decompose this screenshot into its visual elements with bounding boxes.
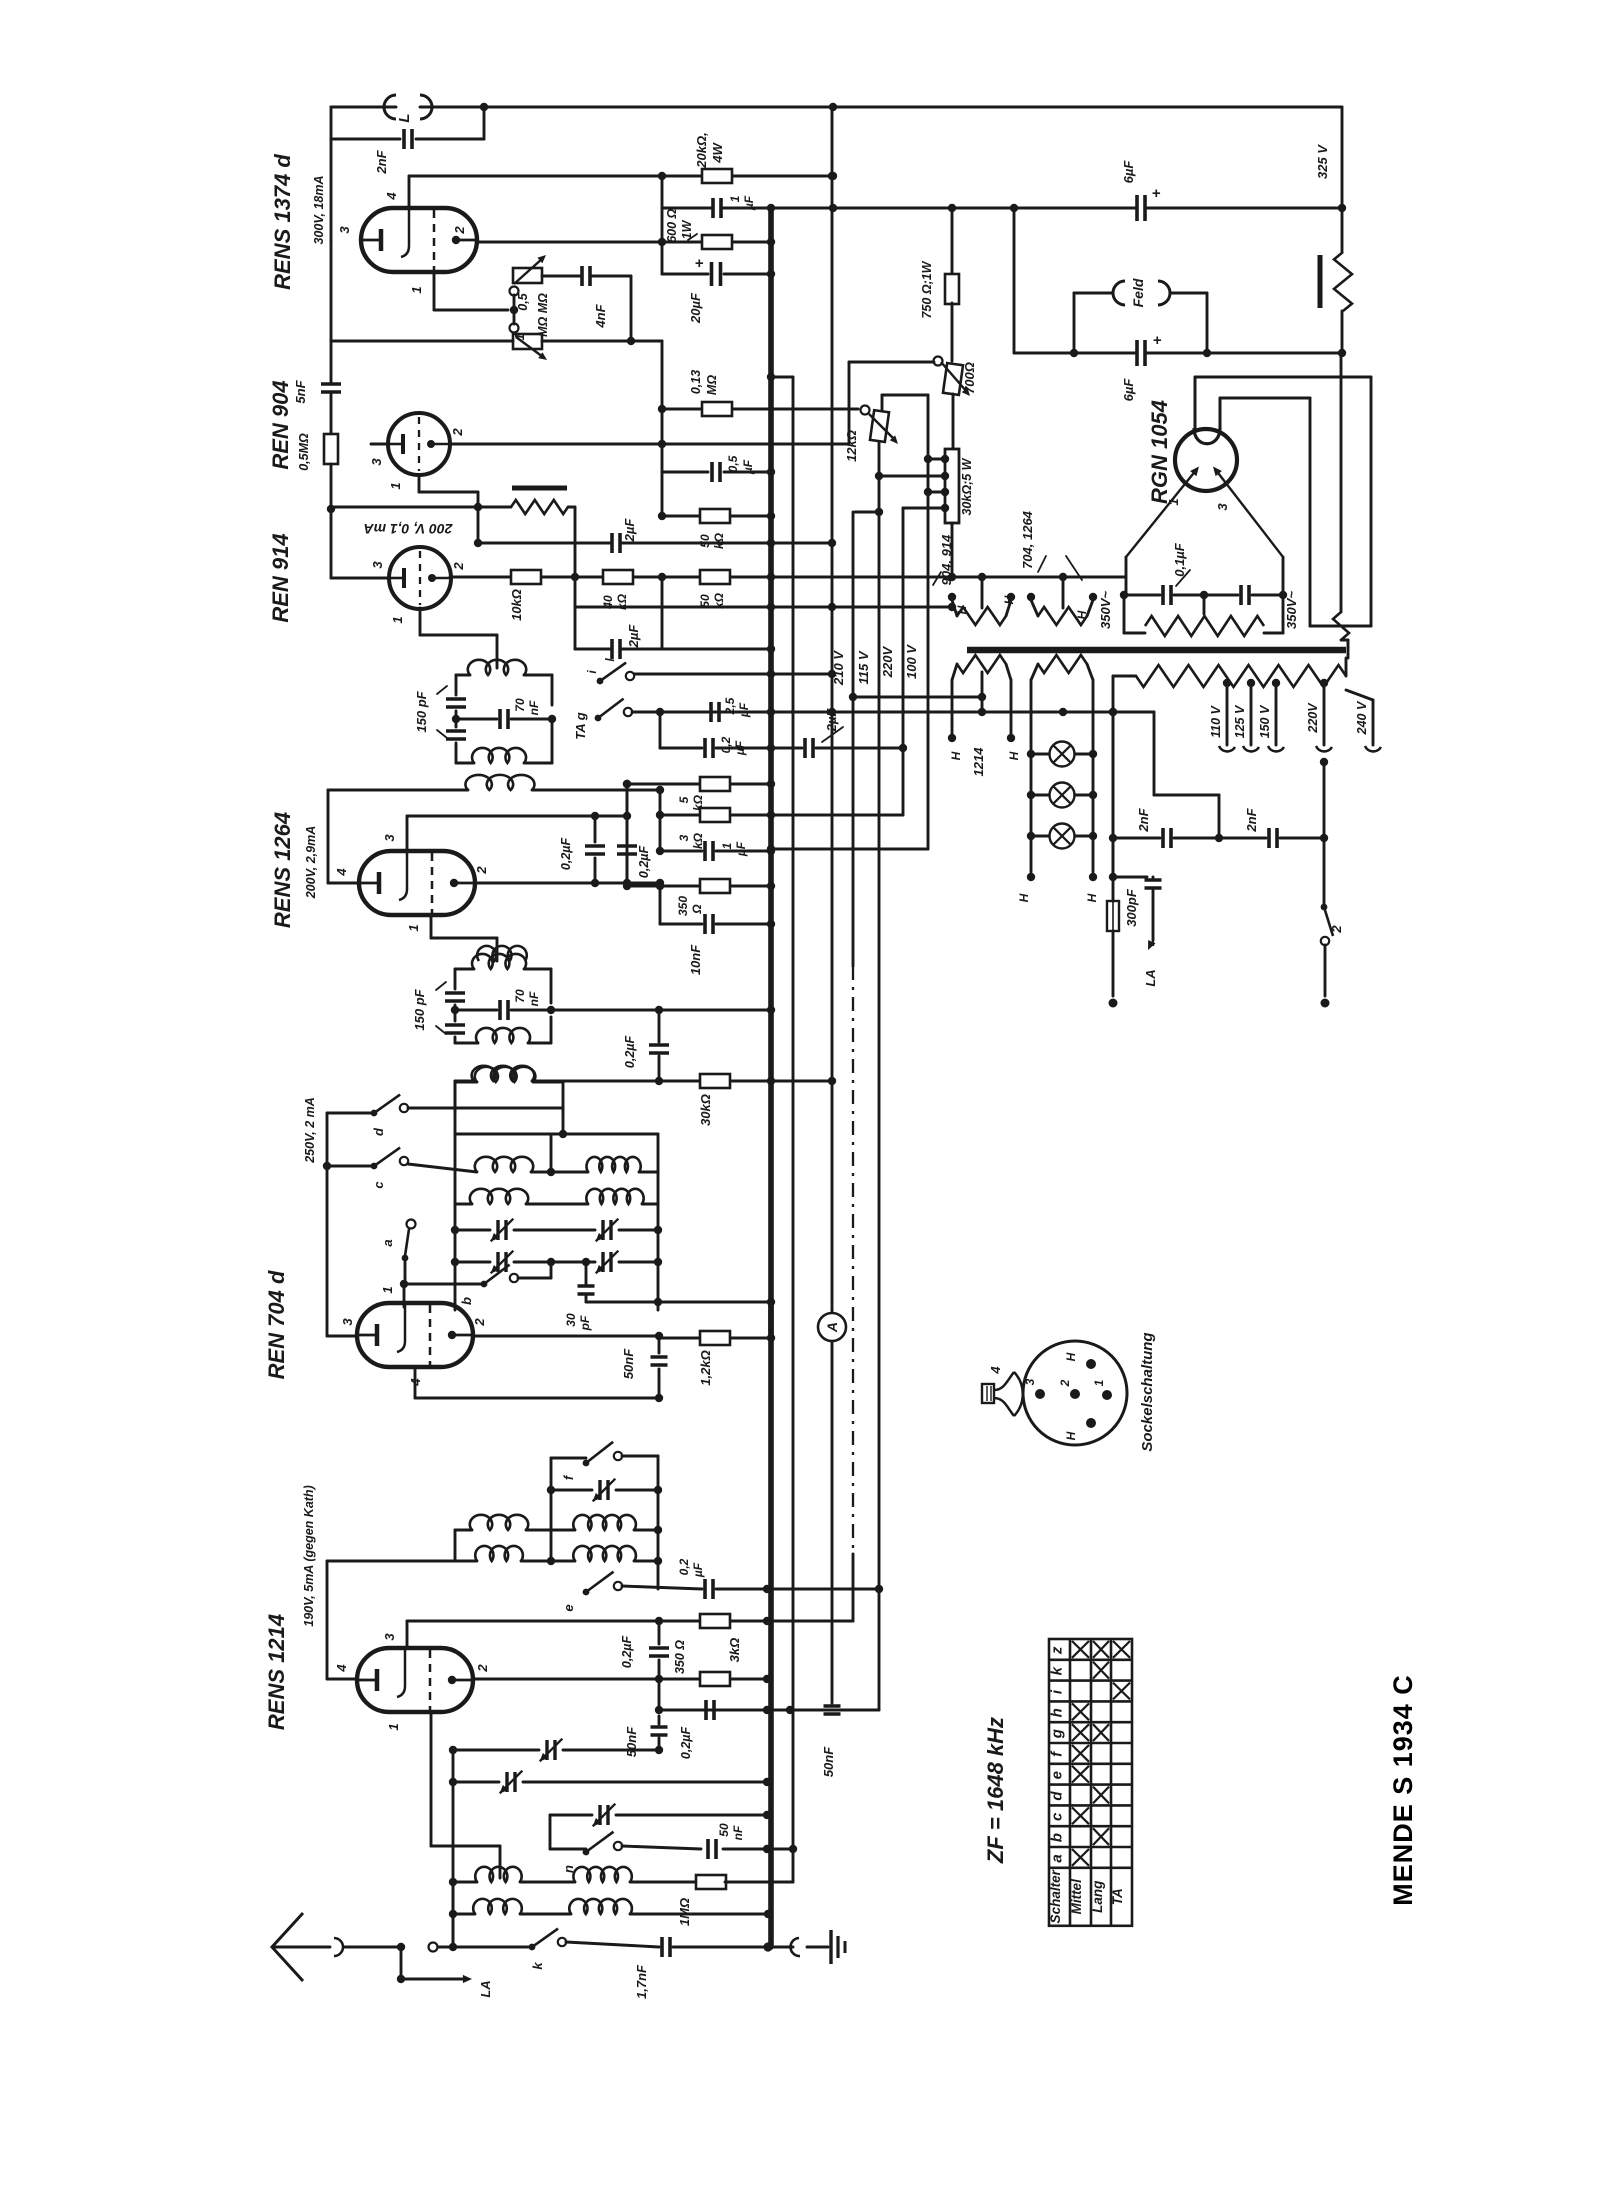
wire <box>731 1337 771 1340</box>
wire vertical x853 upper <box>852 512 855 966</box>
wire <box>330 464 333 578</box>
svg-text:750 Ω;1W: 750 Ω;1W <box>920 260 934 318</box>
wire <box>1153 712 1156 795</box>
svg-text:2: 2 <box>452 226 467 235</box>
wire pin3 <box>327 1335 357 1338</box>
wire <box>1346 690 1373 700</box>
wire <box>1092 680 1095 742</box>
wire <box>520 1881 575 1884</box>
capacitor 10nF <box>705 914 713 934</box>
wire <box>1220 397 1310 400</box>
svg-text:µF: µF <box>737 702 751 718</box>
junction <box>1320 834 1328 842</box>
junction <box>1027 750 1035 758</box>
junction <box>655 1706 663 1714</box>
table X mark g <box>1093 1724 1109 1741</box>
junction <box>658 512 666 520</box>
svg-text:RENS 1264: RENS 1264 <box>270 812 295 928</box>
socket pin 1 <box>1102 1390 1112 1400</box>
wire <box>658 1716 661 1724</box>
wire <box>658 1679 661 1710</box>
junction <box>767 539 775 547</box>
wire <box>528 1042 551 1045</box>
junction <box>948 603 956 611</box>
switch TA g <box>595 715 602 722</box>
svg-text:MΩ: MΩ <box>705 375 719 395</box>
junction <box>1059 573 1067 581</box>
leader <box>436 1026 446 1034</box>
capacitor 50nF (osc cathode) <box>651 1357 668 1365</box>
potentiometer 1 MOhm <box>513 334 542 349</box>
svg-text:1,7nF: 1,7nF <box>634 1964 649 1999</box>
wire primary left lead <box>1112 676 1115 877</box>
capacitor 4nF <box>582 266 590 286</box>
winding mains primary <box>1136 665 1346 687</box>
trimmer capacitor ant pad 2 <box>507 1772 515 1792</box>
wire TA line y712 <box>632 711 771 714</box>
wire 2uF line <box>478 542 611 545</box>
resistor grid leak with tap bar <box>511 500 568 514</box>
wire <box>514 1261 595 1264</box>
switch e <box>583 1589 590 1596</box>
wire top rail right <box>420 106 1342 109</box>
wire <box>1112 877 1115 901</box>
wire <box>658 1660 661 1679</box>
wire y1750 <box>453 1749 539 1752</box>
junction <box>1120 591 1128 599</box>
svg-text:0,1µF: 0,1µF <box>1172 542 1187 577</box>
svg-text:LA: LA <box>478 1980 493 1997</box>
capacitor 70nF (IF2) <box>500 1000 508 1020</box>
wire <box>630 1881 697 1884</box>
junction <box>623 780 631 788</box>
resistor 750 Ohm 1W <box>945 274 959 304</box>
svg-text:0,2µF: 0,2µF <box>623 1036 637 1069</box>
wire 4nF line <box>542 275 581 278</box>
tube RENS1264 body <box>359 851 475 915</box>
wire <box>848 362 851 444</box>
wire RENS1264 pin3 <box>406 816 409 851</box>
svg-text:350: 350 <box>676 896 690 916</box>
junction <box>449 1778 457 1786</box>
svg-text:4: 4 <box>334 1664 349 1673</box>
junction <box>875 472 883 480</box>
svg-text:H: H <box>1007 751 1021 760</box>
svg-text:2nF: 2nF <box>1136 807 1151 832</box>
capacitor 0.2uF <box>705 738 713 758</box>
junction <box>323 1162 331 1170</box>
svg-text:RGN 1054: RGN 1054 <box>1147 400 1172 504</box>
svg-text:REN 704 d: REN 704 d <box>264 1270 289 1379</box>
wire <box>1113 675 1136 678</box>
junction <box>767 573 775 581</box>
junction <box>656 811 664 819</box>
wire y1398 <box>415 1397 659 1400</box>
svg-text:125 V: 125 V <box>1233 704 1247 738</box>
junction <box>1109 834 1117 842</box>
junction <box>449 1910 457 1918</box>
table X mark f <box>1072 1745 1089 1762</box>
svg-text:b: b <box>459 1297 474 1305</box>
wire y1710 <box>659 1709 790 1712</box>
table X mark c <box>1072 1807 1089 1824</box>
wire <box>724 273 771 276</box>
svg-text:1,2kΩ: 1,2kΩ <box>698 1350 713 1385</box>
coil IF1 primary bottom <box>472 748 526 763</box>
wire <box>619 1261 658 1264</box>
junction <box>767 468 775 476</box>
wire <box>952 394 955 449</box>
tube REN904 body <box>388 413 450 475</box>
wire <box>731 885 771 888</box>
leader <box>933 572 941 585</box>
wire <box>1125 557 1128 595</box>
wire antenna lead <box>273 1946 330 1949</box>
svg-text:3: 3 <box>382 1633 397 1641</box>
wire 70nF line (IF2) <box>455 1009 497 1012</box>
svg-text:2: 2 <box>1329 925 1344 934</box>
wire <box>594 858 597 883</box>
svg-text:MΩ MΩ: MΩ MΩ <box>536 293 550 337</box>
junction <box>1338 349 1346 357</box>
svg-text:REN 904: REN 904 <box>268 380 293 469</box>
junction <box>655 1675 663 1683</box>
svg-text:3: 3 <box>337 226 352 234</box>
svg-text:2: 2 <box>472 1318 487 1327</box>
junction <box>655 1617 663 1625</box>
junction <box>571 573 579 581</box>
wire lamp right rail <box>1092 742 1095 836</box>
wire y1302 to bus <box>586 1301 771 1304</box>
junction <box>767 1334 775 1342</box>
resistor 3kOhm (RENS1264 screen) <box>700 808 730 822</box>
svg-text:3: 3 <box>1023 1378 1037 1385</box>
wire <box>594 816 597 842</box>
svg-text:70: 70 <box>513 989 527 1003</box>
svg-text:d: d <box>371 1127 386 1136</box>
svg-text:Mittel: Mittel <box>1069 1879 1084 1914</box>
svg-text:240 V: 240 V <box>1355 700 1369 735</box>
junction <box>767 847 775 855</box>
svg-text:1214: 1214 <box>971 747 986 777</box>
junction <box>547 1557 555 1565</box>
wire anode cap a <box>1194 377 1197 428</box>
wire primary right end <box>1345 658 1348 676</box>
junction <box>452 715 460 723</box>
wire tap4 <box>903 507 945 510</box>
svg-text:200V, 2,9mA: 200V, 2,9mA <box>304 826 318 900</box>
resistor 50kOhm (2) <box>700 509 730 523</box>
wire <box>455 1042 478 1045</box>
resistor 0.13 MOhm <box>702 402 732 416</box>
wire <box>1145 352 1342 355</box>
wire <box>673 1946 768 1949</box>
wire 10nF line <box>660 923 702 926</box>
wire <box>562 1082 565 1113</box>
wire heater branch y697 <box>853 696 982 699</box>
junction <box>582 1258 590 1266</box>
table X mark z <box>1093 1641 1109 1658</box>
junction <box>451 1258 459 1266</box>
winding lamps <box>1038 655 1087 673</box>
junction <box>767 373 775 381</box>
svg-text:1: 1 <box>406 924 421 931</box>
wire <box>626 858 629 883</box>
wire pin1 up <box>403 1284 406 1307</box>
svg-text:350V~: 350V~ <box>1098 591 1113 629</box>
svg-text:115 V: 115 V <box>856 650 871 684</box>
junction <box>655 1746 663 1754</box>
svg-text:h: h <box>1049 1708 1066 1717</box>
wire 0.1uF line <box>1124 594 1160 597</box>
wire RENS1214 anode y1679 <box>473 1678 699 1681</box>
wire <box>731 814 771 817</box>
wire 600ohm line <box>477 241 702 244</box>
junction <box>763 1942 772 1951</box>
contact a <box>407 1220 416 1229</box>
svg-text:RENS 1374 d: RENS 1374 d <box>270 154 295 290</box>
junction <box>828 1077 836 1085</box>
wire <box>401 1978 466 1981</box>
wire node 662 <box>661 341 664 472</box>
svg-text:Feld: Feld <box>1130 278 1146 307</box>
junction <box>764 1910 772 1918</box>
wire RENS1264 pin4 <box>328 882 359 885</box>
junction <box>654 1298 662 1306</box>
field coil Feld <box>1113 281 1125 305</box>
svg-text:70: 70 <box>513 698 527 712</box>
table X mark z <box>1113 1641 1130 1658</box>
wire tap 125V <box>1250 681 1253 745</box>
svg-text:TA: TA <box>1110 1888 1125 1905</box>
capacitor 6uF lower <box>1137 340 1145 366</box>
wire <box>1087 600 1093 616</box>
switch 2 (mains) <box>1321 904 1328 911</box>
wire pot top link <box>882 394 928 397</box>
wire <box>1123 595 1126 633</box>
wire <box>619 1229 658 1232</box>
wire LA branch <box>400 1947 403 1975</box>
junction <box>654 1526 662 1534</box>
junction <box>474 539 482 547</box>
resistor 3kOhm (bias) <box>700 1614 730 1628</box>
wire bus segment <box>768 1302 774 1338</box>
wire <box>408 1164 477 1172</box>
wire <box>585 1296 588 1302</box>
wire vertical x928 <box>927 395 930 849</box>
wire y512 link <box>855 511 879 514</box>
wire <box>542 576 602 579</box>
junction <box>327 505 335 513</box>
wire <box>568 506 575 509</box>
wire <box>731 1620 767 1623</box>
capacitor 50nF (agc) <box>651 1727 668 1735</box>
junction <box>767 708 775 716</box>
wire bus branch y377 <box>771 376 793 379</box>
table X mark g <box>1072 1724 1089 1741</box>
svg-text:1: 1 <box>380 1286 395 1293</box>
wire anode cap b <box>1219 398 1222 428</box>
svg-text:1: 1 <box>386 1723 401 1730</box>
svg-text:H: H <box>1064 1352 1078 1361</box>
leader <box>1038 556 1046 572</box>
coil IF2 primary bottom <box>476 1028 530 1043</box>
H terminal <box>1089 873 1097 881</box>
wire <box>1030 836 1033 872</box>
svg-text:0,5MΩ: 0,5MΩ <box>297 433 311 471</box>
wire frame left <box>454 969 457 989</box>
wire <box>1152 890 1155 940</box>
capacitor 300pF <box>1145 880 1162 888</box>
wire <box>550 1262 553 1278</box>
wire Feld right <box>1206 293 1209 353</box>
junction <box>1223 679 1231 687</box>
wire <box>1112 712 1115 877</box>
wire <box>1310 625 1371 628</box>
socket pin 3 <box>1035 1389 1045 1399</box>
wire REN914 pin3 <box>331 577 389 580</box>
H terminal <box>1027 873 1035 881</box>
trimmer capacitor osc MW pad 2 <box>498 1252 506 1272</box>
coil ant sec MW <box>473 1899 522 1914</box>
wire <box>455 711 458 727</box>
capacitor 0.1uF a <box>1163 585 1171 605</box>
wire <box>551 719 554 763</box>
junction <box>654 1486 662 1494</box>
wire <box>1006 600 1011 616</box>
wire rf frame right <box>657 1456 660 1589</box>
wire <box>721 207 1137 210</box>
wire <box>626 784 629 886</box>
junction <box>449 1943 457 1951</box>
junction <box>1109 708 1117 716</box>
resistor 0.5 MOhm grid leak <box>324 434 338 464</box>
tube REN704d body <box>357 1303 473 1367</box>
svg-text:30kΩ;5 W: 30kΩ;5 W <box>960 457 974 515</box>
junction <box>829 103 837 111</box>
svg-text:3: 3 <box>340 1318 355 1326</box>
wire 0.5uF line <box>662 471 708 474</box>
resistor hum bucking <box>1334 252 1352 311</box>
junction <box>547 1006 555 1014</box>
junction <box>828 539 836 547</box>
resistor 600 Ohm 1W <box>702 235 732 249</box>
junction <box>1089 832 1097 840</box>
wire <box>420 634 497 637</box>
wire y1010 to bus <box>551 1009 771 1012</box>
wire 2uF right line <box>771 747 802 750</box>
wire <box>716 923 771 926</box>
svg-text:d: d <box>1049 1791 1066 1801</box>
svg-text:0,2µF: 0,2µF <box>679 1727 693 1760</box>
junction <box>899 744 907 752</box>
svg-text:2: 2 <box>474 866 489 875</box>
H terminal <box>1027 593 1035 601</box>
svg-text:250V, 2 mA: 250V, 2 mA <box>303 1097 317 1164</box>
table X mark z <box>1072 1641 1089 1658</box>
wire 70nF line <box>456 718 497 721</box>
wire 300pF branch <box>1113 876 1147 879</box>
junction <box>655 1077 663 1085</box>
wire <box>1174 837 1219 840</box>
wire <box>952 600 957 616</box>
wire 2nF line <box>416 138 484 141</box>
wire frame left upper <box>455 675 458 695</box>
wire <box>626 858 629 886</box>
table X mark a <box>1072 1849 1089 1866</box>
junction <box>627 337 635 345</box>
mechanical link dash line <box>852 966 854 1554</box>
capacitor 150pF lower <box>446 731 466 739</box>
wire 1.2k line <box>659 1337 699 1340</box>
svg-text:1: 1 <box>513 333 527 340</box>
trimmer capacitor ant trim <box>600 1805 608 1825</box>
wire <box>622 1455 658 1458</box>
wire IF1 secondary left <box>328 789 468 792</box>
junction <box>1109 873 1117 881</box>
wire <box>642 1203 658 1206</box>
svg-text:2nF: 2nF <box>1244 807 1259 832</box>
wire <box>550 1017 553 1043</box>
svg-text:4: 4 <box>384 192 399 201</box>
svg-text:2: 2 <box>450 428 465 437</box>
wire <box>881 395 884 411</box>
wire <box>455 1529 472 1532</box>
svg-text:3kΩ: 3kΩ <box>727 1638 742 1663</box>
junction <box>828 708 836 716</box>
wire <box>526 1529 575 1532</box>
wire <box>454 1530 457 1561</box>
wire <box>1031 835 1049 838</box>
trimmer capacitor osc LW pad <box>603 1220 611 1240</box>
junction <box>941 488 949 496</box>
svg-text:H: H <box>1002 595 1016 604</box>
wire <box>1124 632 1145 635</box>
wire <box>725 1881 793 1884</box>
svg-text:MENDE S 1934 C: MENDE S 1934 C <box>1388 1674 1418 1906</box>
pilot lamp 3 <box>1050 824 1075 849</box>
wire <box>562 1108 565 1134</box>
terminal 110V <box>1219 746 1235 751</box>
svg-text:220V: 220V <box>1306 702 1320 734</box>
wire lamp left rail <box>1030 742 1033 836</box>
switch n <box>583 1849 590 1856</box>
wire top rail left <box>331 106 396 109</box>
svg-text:50nF: 50nF <box>821 1746 836 1777</box>
svg-text:2: 2 <box>451 562 466 571</box>
svg-text:H: H <box>1017 893 1031 902</box>
junction <box>655 1006 663 1014</box>
wire <box>634 1560 658 1563</box>
junction <box>978 573 986 581</box>
wire grid line y1621 <box>407 1620 659 1623</box>
wire switch i line <box>632 673 771 676</box>
svg-text:c: c <box>371 1181 386 1189</box>
svg-text:nF: nF <box>527 991 541 1006</box>
svg-text:pF: pF <box>578 1315 592 1331</box>
junction <box>767 1298 775 1306</box>
junction <box>828 670 836 678</box>
wire center tap <box>981 577 984 608</box>
svg-text:700Ω: 700Ω <box>962 362 977 394</box>
wire vertical x903 <box>902 508 905 815</box>
svg-text:20kΩ,: 20kΩ, <box>694 132 709 168</box>
wire y1081 <box>532 1080 659 1083</box>
junction <box>623 879 631 887</box>
junction <box>1320 758 1328 766</box>
resistor 1.2kOhm <box>700 1331 730 1345</box>
wire REN904 anode y444 <box>450 443 849 446</box>
